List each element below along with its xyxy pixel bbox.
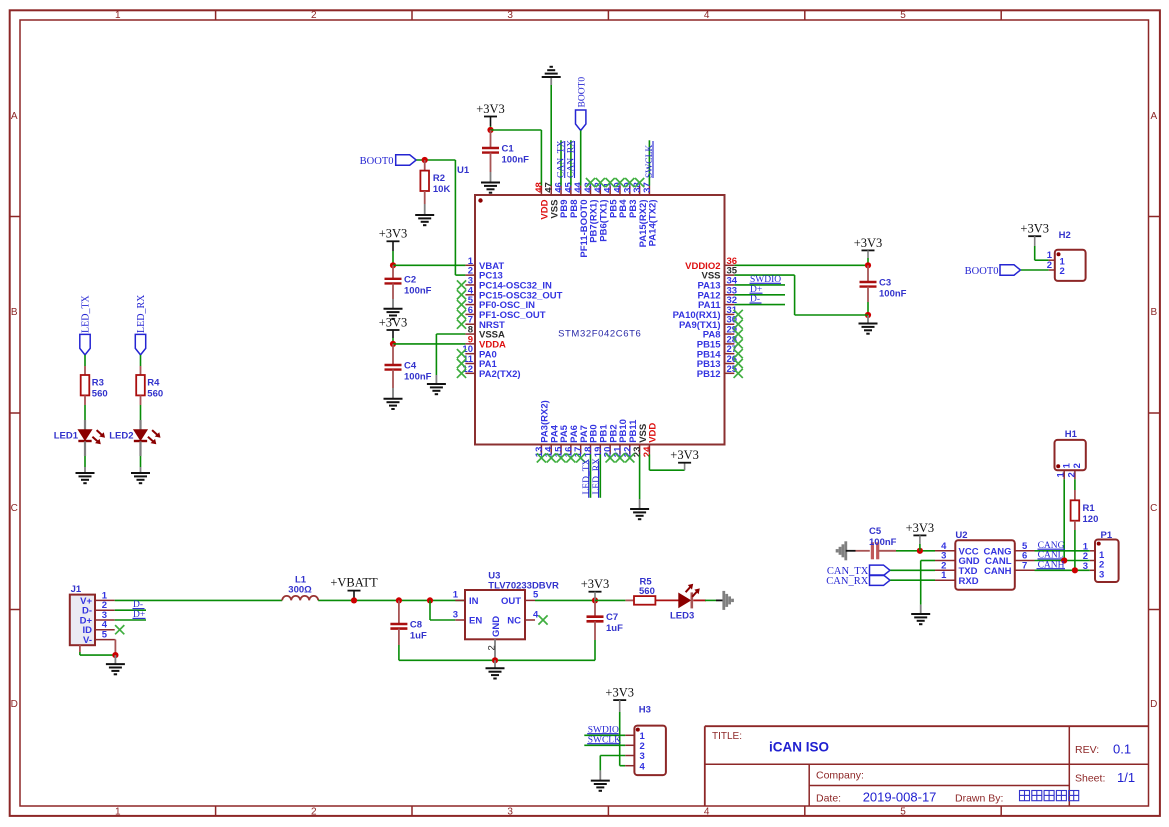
svg-text:300Ω: 300Ω — [288, 584, 312, 595]
svg-text:C1: C1 — [502, 144, 515, 155]
svg-text:+3V3: +3V3 — [605, 686, 634, 700]
svg-text:100nF: 100nF — [404, 285, 432, 296]
svg-text:+3V3: +3V3 — [1020, 222, 1049, 236]
svg-text:C: C — [1150, 503, 1157, 514]
svg-text:A: A — [11, 111, 18, 122]
svg-text:BOOT0: BOOT0 — [578, 77, 588, 108]
svg-text:1/1: 1/1 — [1117, 770, 1135, 785]
svg-text:TITLE:: TITLE: — [712, 731, 742, 742]
svg-text:+3V3: +3V3 — [854, 236, 883, 250]
svg-text:0.1: 0.1 — [1113, 742, 1131, 757]
svg-text:EN: EN — [469, 616, 482, 627]
svg-text:C: C — [11, 503, 18, 514]
svg-text:LED_TX: LED_TX — [582, 458, 592, 494]
svg-text:2: 2 — [311, 10, 317, 21]
svg-text:P1: P1 — [1101, 530, 1113, 541]
svg-text:B: B — [1150, 307, 1157, 318]
svg-text:BOOT0: BOOT0 — [965, 266, 999, 277]
svg-text:5: 5 — [102, 630, 108, 641]
svg-text:560: 560 — [147, 388, 163, 399]
svg-text:+3V3: +3V3 — [906, 521, 935, 535]
svg-text:C7: C7 — [606, 612, 618, 623]
svg-text:LED3: LED3 — [670, 611, 694, 622]
svg-text:5: 5 — [533, 590, 539, 601]
svg-text:4: 4 — [704, 807, 710, 818]
svg-text:LED2: LED2 — [109, 431, 133, 442]
svg-text:1: 1 — [1061, 462, 1072, 468]
svg-text:+3V3: +3V3 — [379, 315, 408, 329]
svg-text:1: 1 — [115, 10, 121, 21]
svg-text:24: 24 — [642, 446, 653, 457]
svg-text:PB12: PB12 — [697, 369, 721, 380]
svg-text:Sheet:: Sheet: — [1075, 773, 1105, 785]
svg-text:7: 7 — [1022, 560, 1027, 571]
svg-text:C3: C3 — [879, 278, 891, 289]
svg-text:2: 2 — [1072, 463, 1083, 468]
svg-text:1: 1 — [1056, 471, 1067, 477]
svg-text:5: 5 — [900, 10, 906, 21]
svg-text:H3: H3 — [639, 705, 651, 716]
svg-text:STM32F042C6T6: STM32F042C6T6 — [558, 329, 641, 340]
svg-text:TLV70233DBVR: TLV70233DBVR — [488, 581, 559, 592]
svg-text:4: 4 — [533, 609, 539, 620]
svg-text:100nF: 100nF — [404, 372, 432, 383]
svg-text:PA14(TX2): PA14(TX2) — [648, 200, 659, 247]
svg-text:OUT: OUT — [501, 596, 521, 607]
svg-text:Drawn By:: Drawn By: — [955, 792, 1003, 804]
svg-text:4: 4 — [640, 761, 646, 772]
svg-text:BOOT0: BOOT0 — [360, 156, 394, 167]
svg-text:iCAN ISO: iCAN ISO — [769, 740, 829, 755]
svg-text:1: 1 — [941, 570, 947, 581]
svg-text:U3: U3 — [488, 570, 500, 581]
svg-text:+3V3: +3V3 — [379, 227, 408, 241]
svg-text:2: 2 — [311, 807, 317, 818]
svg-text:LED_RX: LED_RX — [136, 294, 147, 333]
svg-text:REV:: REV: — [1075, 744, 1099, 756]
svg-text:D: D — [11, 699, 18, 710]
svg-text:2019-008-17: 2019-008-17 — [863, 790, 937, 805]
svg-text:Date:: Date: — [816, 792, 841, 804]
svg-text:3: 3 — [453, 609, 458, 620]
svg-text:+3V3: +3V3 — [476, 102, 505, 116]
svg-text:U1: U1 — [457, 165, 470, 176]
svg-text:R2: R2 — [433, 173, 445, 184]
svg-text:B: B — [11, 307, 18, 318]
svg-text:LED_RX: LED_RX — [592, 458, 602, 495]
svg-text:H1: H1 — [1065, 429, 1078, 440]
svg-text:R1: R1 — [1083, 503, 1096, 514]
svg-text:LED_TX: LED_TX — [81, 294, 92, 333]
svg-text:H2: H2 — [1059, 230, 1071, 241]
svg-text:V-: V- — [83, 635, 92, 646]
svg-text:2: 2 — [1060, 266, 1065, 277]
svg-text:100nF: 100nF — [879, 289, 907, 300]
svg-text:GND: GND — [491, 616, 502, 637]
svg-text:3: 3 — [507, 807, 513, 818]
svg-text:+3V3: +3V3 — [670, 448, 699, 462]
svg-text:1: 1 — [115, 807, 121, 818]
svg-text:560: 560 — [639, 586, 655, 597]
svg-text:CANH: CANH — [984, 566, 1012, 577]
svg-text:U2: U2 — [955, 530, 967, 541]
svg-text:RXD: RXD — [959, 576, 979, 587]
svg-text:+3V3: +3V3 — [581, 577, 610, 591]
svg-text:PA2(TX2): PA2(TX2) — [479, 369, 521, 380]
svg-text:2: 2 — [1047, 260, 1052, 271]
svg-text:100nF: 100nF — [869, 537, 897, 548]
svg-text:VDD: VDD — [648, 423, 659, 443]
svg-text:C2: C2 — [404, 274, 416, 285]
svg-text:C5: C5 — [869, 526, 882, 537]
svg-text:120: 120 — [1083, 514, 1099, 525]
svg-text:1uF: 1uF — [410, 631, 427, 642]
svg-text:D: D — [1150, 699, 1157, 710]
svg-text:2: 2 — [487, 645, 498, 650]
svg-text:100nF: 100nF — [502, 155, 530, 166]
svg-text:1uF: 1uF — [606, 623, 623, 634]
svg-text:NC: NC — [507, 616, 521, 627]
svg-text:10K: 10K — [433, 184, 451, 195]
svg-text:C8: C8 — [410, 620, 422, 631]
svg-text:3: 3 — [507, 10, 513, 21]
svg-text:5: 5 — [900, 807, 906, 818]
svg-text:C4: C4 — [404, 361, 417, 372]
svg-text:R3: R3 — [92, 378, 104, 389]
svg-text:A: A — [1150, 111, 1157, 122]
svg-text:1: 1 — [453, 590, 459, 601]
svg-text:J1: J1 — [71, 584, 82, 595]
svg-text:4: 4 — [704, 10, 710, 21]
svg-text:R4: R4 — [147, 378, 160, 389]
svg-text:CAN_RX: CAN_RX — [826, 576, 868, 587]
svg-text:3: 3 — [1083, 561, 1088, 572]
svg-text:3: 3 — [1099, 569, 1104, 580]
svg-text:LED1: LED1 — [54, 431, 79, 442]
svg-text:2: 2 — [1066, 472, 1077, 477]
svg-text:560: 560 — [92, 388, 108, 399]
svg-text:Company:: Company: — [816, 769, 864, 781]
svg-text:IN: IN — [469, 596, 479, 607]
svg-text:+VBATT: +VBATT — [330, 576, 378, 590]
